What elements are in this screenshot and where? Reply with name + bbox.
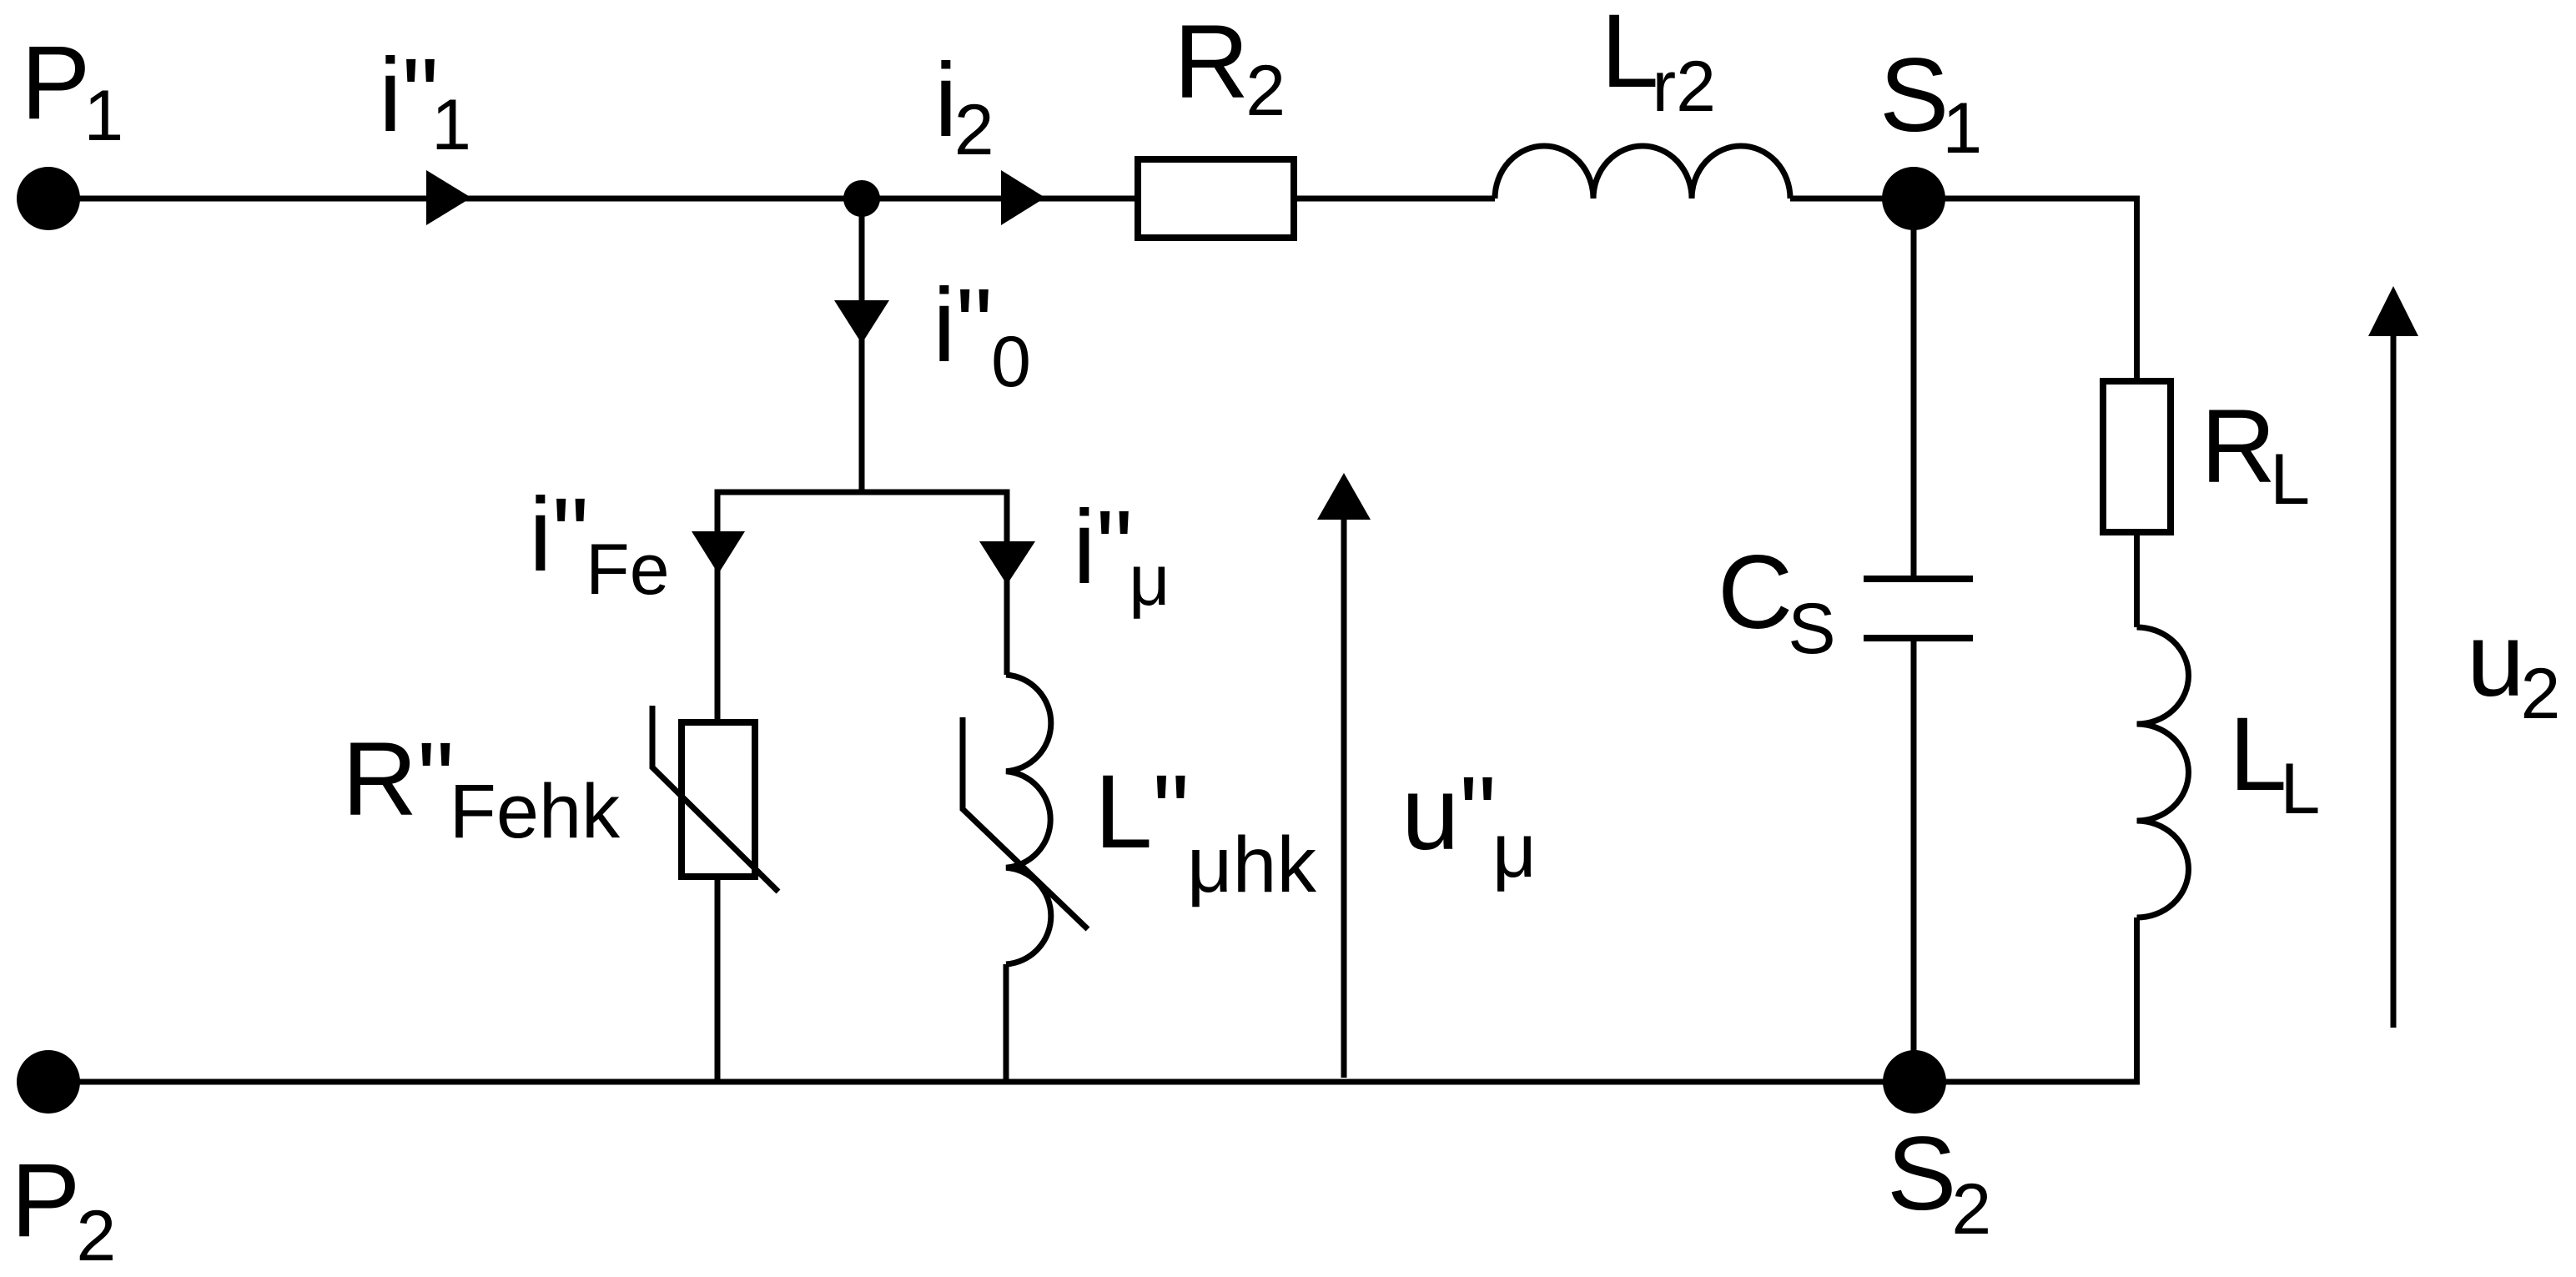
wire top rail left segment P1 to R2 xyxy=(48,196,1135,202)
wire LL to bottom rail xyxy=(2134,918,2140,1082)
wire right branch lower xyxy=(1004,964,1009,1082)
wire CS to S2 xyxy=(1911,641,1917,1082)
arrow i"0 xyxy=(834,300,889,344)
wire R2 to Lr2 xyxy=(1297,196,1495,202)
terminal P1 xyxy=(17,167,80,230)
terminal S2 xyxy=(1883,1050,1946,1114)
arrow i2 xyxy=(1001,170,1045,225)
varistor diagonal xyxy=(652,706,778,892)
capacitor CS bottom plate xyxy=(1864,635,1973,641)
variable inductor diagonal xyxy=(963,717,1088,929)
arrow u2 line xyxy=(2391,333,2397,1028)
terminal S1 xyxy=(1882,167,1945,230)
arrow i"mu xyxy=(979,541,1035,585)
bottom rail xyxy=(48,1079,2140,1085)
arrow i"1 xyxy=(426,170,471,225)
wire junction down to split xyxy=(859,199,865,492)
terminal P2 xyxy=(17,1050,80,1114)
arrow i"Fe xyxy=(692,531,745,574)
wire S1 down to CS xyxy=(1911,199,1917,576)
inductor L"muhk xyxy=(1006,675,1051,964)
arrow u"mu line xyxy=(1341,513,1347,1078)
resistor RL xyxy=(2103,381,2171,532)
wire left branch lower xyxy=(715,877,721,1082)
wire RL to LL xyxy=(2134,535,2140,627)
arrow u"mu head xyxy=(1317,473,1371,520)
split bar wire with left and right branch drops xyxy=(717,492,1007,722)
wire Lr2 to S1 and corner down to RL xyxy=(1790,199,2137,378)
arrow u2 head xyxy=(2368,286,2418,336)
inductor LL xyxy=(2137,627,2189,918)
inductor Lr2 xyxy=(1495,146,1790,199)
resistor R2 xyxy=(1138,159,1294,238)
varistor R"Fehk body xyxy=(682,722,755,877)
capacitor CS top plate xyxy=(1864,576,1973,582)
node junction i2 xyxy=(843,180,880,217)
